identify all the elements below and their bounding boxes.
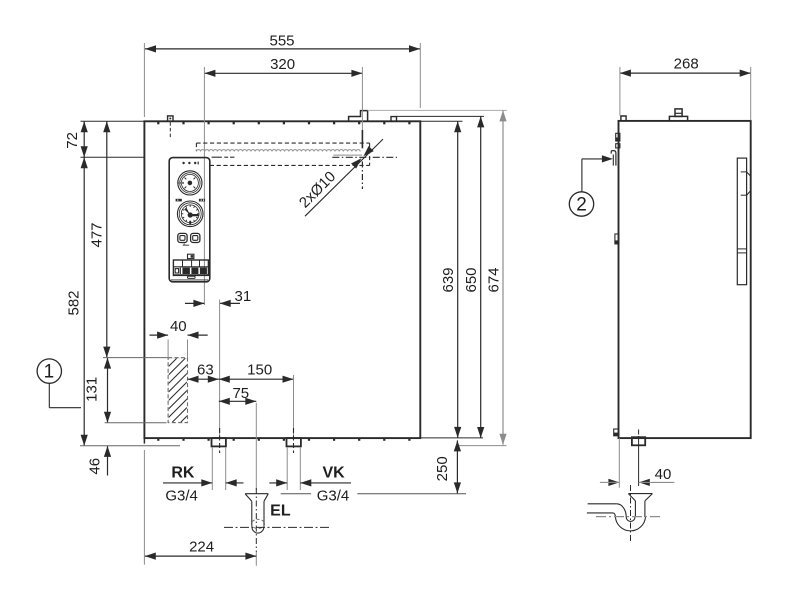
dimension 150 bbox=[219, 362, 294, 383]
dimension 650 bbox=[463, 116, 484, 438]
dimension 75 bbox=[219, 385, 256, 405]
extension line hatch top left bbox=[103, 357, 180, 359]
svg-text:RK: RK bbox=[171, 465, 195, 482]
dimension 320 bbox=[204, 56, 362, 77]
clip below terminal strip bbox=[188, 276, 196, 278]
slot centre line dashes (left slot area) bbox=[212, 156, 235, 158]
svg-text:582: 582 bbox=[66, 290, 83, 315]
extension line pipe end level left bbox=[80, 445, 180, 447]
EL level extension line right bbox=[357, 493, 466, 495]
side pipe centreline bbox=[638, 430, 640, 487]
VK pipe stub bbox=[287, 438, 301, 446]
dimension 46 bbox=[87, 446, 112, 476]
side drain funnel bbox=[628, 494, 652, 517]
vent slots beside timer bbox=[176, 199, 205, 202]
siphon trap bbox=[587, 504, 646, 531]
top mounting tab with hole (left) bbox=[168, 116, 173, 121]
front view bottom edge notch ticks bbox=[157, 439, 410, 441]
svg-text:72: 72 bbox=[64, 132, 81, 149]
svg-text:131: 131 bbox=[84, 377, 101, 402]
extension line 555 left bbox=[143, 43, 145, 117]
extension line 320 left (through panel) bbox=[203, 67, 205, 305]
svg-text:G3/4: G3/4 bbox=[165, 487, 198, 504]
extension line pipe end level right bbox=[459, 445, 507, 447]
bracket scalloped edge (hidden) bbox=[196, 150, 360, 152]
svg-text:150: 150 bbox=[247, 362, 272, 379]
leader 2x diam 10 bbox=[305, 139, 383, 216]
dimension 639 bbox=[440, 121, 461, 438]
wall bracket hook bbox=[611, 151, 616, 166]
svg-text:555: 555 bbox=[269, 33, 294, 50]
VK pipe extension lines bbox=[287, 447, 300, 490]
door hinge strip (side right) bbox=[737, 158, 750, 285]
side wall small tab 4 bbox=[614, 429, 619, 436]
extension line hatch bottom left bbox=[105, 422, 167, 424]
svg-text:639: 639 bbox=[440, 267, 457, 292]
dimension 63 bbox=[188, 362, 219, 383]
VK pipe centreline bbox=[293, 375, 295, 453]
dimension 40 (hatch width) bbox=[150, 318, 208, 339]
balloon 1 bbox=[37, 359, 61, 383]
panel buttons bbox=[178, 233, 200, 242]
side view top left corner tab bbox=[621, 116, 626, 121]
front top edge extension line right (to 639) bbox=[420, 120, 462, 122]
svg-text:674: 674 bbox=[485, 267, 502, 292]
RK pipe extension lines bbox=[212, 447, 225, 490]
dimension 72 bbox=[64, 121, 88, 157]
side view: boiler outline bbox=[619, 121, 751, 438]
extension line 224 left bbox=[143, 450, 145, 565]
svg-text:2: 2 bbox=[576, 194, 587, 215]
dimension 40 (side) bbox=[600, 466, 674, 486]
svg-text:650: 650 bbox=[463, 267, 480, 292]
dimension 250 bbox=[434, 440, 461, 493]
svg-text:G3/4: G3/4 bbox=[317, 487, 350, 504]
funnel horizontal centreline bbox=[224, 526, 330, 528]
RK dimension arrows G3/4 bbox=[163, 479, 244, 486]
dimension 582 bbox=[66, 157, 88, 446]
mark under buttons bbox=[183, 244, 190, 246]
svg-text:40: 40 bbox=[655, 466, 672, 483]
top bracket tab (stepped, right) bbox=[349, 111, 368, 122]
front top edge extension line left bbox=[81, 120, 145, 122]
svg-text:1: 1 bbox=[44, 362, 55, 383]
side pipe stub bbox=[632, 437, 645, 445]
extension line 555 right bbox=[419, 43, 421, 108]
svg-text:EL: EL bbox=[270, 502, 291, 519]
svg-text:320: 320 bbox=[270, 56, 295, 73]
extension line back wall (side) bbox=[618, 438, 620, 488]
front view top edge notch ticks bbox=[157, 122, 410, 124]
small switch icon bbox=[188, 254, 194, 258]
svg-text:VK: VK bbox=[322, 465, 345, 482]
leader line left of VK G3/4 bbox=[281, 493, 311, 495]
right keyhole slot: vertical mark bbox=[361, 130, 363, 189]
balloon 2 bbox=[569, 192, 593, 216]
small top tab right bbox=[391, 117, 397, 122]
extension line 320 right bbox=[361, 67, 363, 130]
bracket hidden outline (dashed rect) bbox=[196, 143, 369, 165]
svg-text:40: 40 bbox=[170, 318, 187, 335]
slot level extension line left bbox=[81, 156, 144, 158]
extension lines 40 bbox=[168, 340, 187, 358]
side wall small tab 1 bbox=[616, 133, 620, 141]
svg-text:250: 250 bbox=[434, 456, 451, 481]
right keyhole slot: horizontal centreline bbox=[332, 155, 397, 157]
control panel outline bbox=[169, 158, 210, 282]
balloon 2 leader with arrow bbox=[582, 155, 613, 191]
balloon 1 leader bbox=[49, 383, 81, 407]
back panel top edge extension line (to 650) bbox=[397, 115, 485, 117]
side wall small tab 2 bbox=[616, 144, 620, 148]
extension line bottom edge right bbox=[420, 437, 483, 439]
EL drain funnel bbox=[245, 494, 268, 533]
extension lines 268 bbox=[620, 67, 751, 120]
svg-text:63: 63 bbox=[197, 362, 214, 379]
dimension 224 bbox=[145, 539, 257, 560]
box left edge overshoot at bottom corner bbox=[143, 438, 145, 444]
dimension 268 bbox=[620, 56, 751, 77]
timer gauge face bbox=[177, 201, 203, 227]
svg-text:31: 31 bbox=[235, 288, 252, 305]
RK pipe stub bbox=[212, 438, 226, 446]
VK dimension arrows G3/4 bbox=[269, 479, 351, 486]
RK pipe centreline bbox=[219, 300, 221, 454]
thermometer gauge bbox=[178, 171, 202, 195]
side wall small tab 3 bbox=[615, 234, 619, 244]
panel indicator dots bbox=[182, 162, 198, 165]
dimension 477 bbox=[88, 121, 110, 357]
dimension 555 bbox=[145, 33, 420, 53]
hatch dashed border bbox=[168, 358, 187, 423]
bracket top level extension line (to 674) bbox=[368, 109, 507, 111]
dimension 131 bbox=[84, 358, 112, 423]
side view top bracket tab bbox=[669, 109, 687, 121]
trap horizontal centreline bbox=[596, 516, 662, 518]
dimension 31 bbox=[185, 288, 251, 307]
dimension 674 bbox=[485, 110, 506, 444]
centerline below left tab bbox=[169, 122, 171, 138]
svg-text:75: 75 bbox=[232, 385, 249, 402]
terminal strip bbox=[173, 260, 208, 275]
dashed drain opening in funnel bbox=[251, 519, 264, 528]
svg-text:268: 268 bbox=[674, 56, 699, 73]
EL centreline bbox=[255, 403, 257, 566]
trap vertical centreline bbox=[630, 485, 632, 543]
hatched wall clearance area bbox=[160, 318, 200, 452]
svg-text:477: 477 bbox=[88, 222, 105, 247]
front view: boiler outline bbox=[144, 121, 420, 438]
svg-text:46: 46 bbox=[87, 458, 104, 475]
svg-text:224: 224 bbox=[189, 539, 214, 556]
